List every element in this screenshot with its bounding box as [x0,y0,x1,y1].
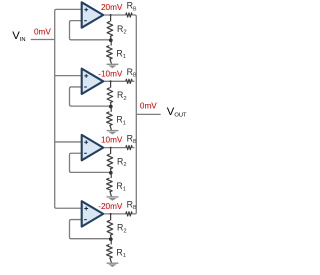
wire: branch to U2 noninverting input [55,75,82,77]
wire: RB of U1 to summing bus [132,14,134,16]
op-amp U4 [82,201,104,226]
resistor R2 of U3 [107,148,113,173]
junction node: feedback divider tap of U1 [109,38,113,42]
junction: R2 tap on U3 output [110,147,112,149]
svg-text:0mV: 0mV [140,102,157,111]
resistor R2 of U2 [107,81,113,106]
resistor R2 of U1 [107,15,113,40]
svg-text:20mV: 20mV [101,3,123,12]
resistor R1 of U1 [107,40,113,64]
resistor R1 of U3 [107,173,113,197]
wire: inverting feedback loop of U4 [70,220,111,239]
op-amp U1 [82,2,104,27]
ground symbol below R1 of U1 [107,64,119,68]
ground symbol below R1 of U2 [107,131,119,135]
svg-text:10mV: 10mV [101,136,123,145]
op-amp U2 [82,69,104,94]
resistor RB of U4 [126,212,132,216]
op-amp U3 [82,135,104,160]
wire: RB of U3 to summing bus [132,147,134,149]
svg-text:-20mV: -20mV [98,202,123,211]
wire: branch to U3 noninverting input [55,141,82,143]
wire: RB of U2 to summing bus [132,80,134,82]
junction node: feedback divider tap of U3 [109,171,113,175]
wire: output of U1 [102,14,126,16]
wire: output of U2 [102,80,126,82]
wire: VIN input lead [31,39,55,41]
resistor RB of U3 [126,146,132,150]
svg-text:0mV: 0mV [34,28,51,37]
wire: inverting feedback loop of U2 [70,87,111,106]
resistor RB of U1 [126,13,132,17]
junction node: feedback divider tap of U4 [109,237,113,241]
wire: output of U4 [102,213,126,215]
wire: inverting feedback loop of U1 [70,21,111,40]
wire: RB of U4 to summing bus [132,213,134,215]
junction node: feedback divider tap of U2 [109,105,113,109]
ground symbol below R1 of U4 [107,263,119,267]
wire: inverting feedback loop of U3 [70,153,111,172]
ground symbol below R1 of U3 [107,197,119,201]
resistor R1 of U2 [107,107,113,131]
resistor R1 of U4 [107,239,113,263]
wire: VOUT lead [136,113,160,115]
svg-text:-10mV: -10mV [98,69,123,78]
wire: output of U3 [102,147,126,149]
wire: left input bus connecting VIN to all noninverting inputs [55,9,82,208]
wire: right summing bus (VOUT net) [134,15,136,214]
junction: R2 tap on U1 output [110,14,112,16]
junction: R2 tap on U2 output [110,80,112,82]
junction: R2 tap on U4 output [110,213,112,215]
resistor R2 of U4 [107,214,113,239]
resistor RB of U2 [126,79,132,83]
